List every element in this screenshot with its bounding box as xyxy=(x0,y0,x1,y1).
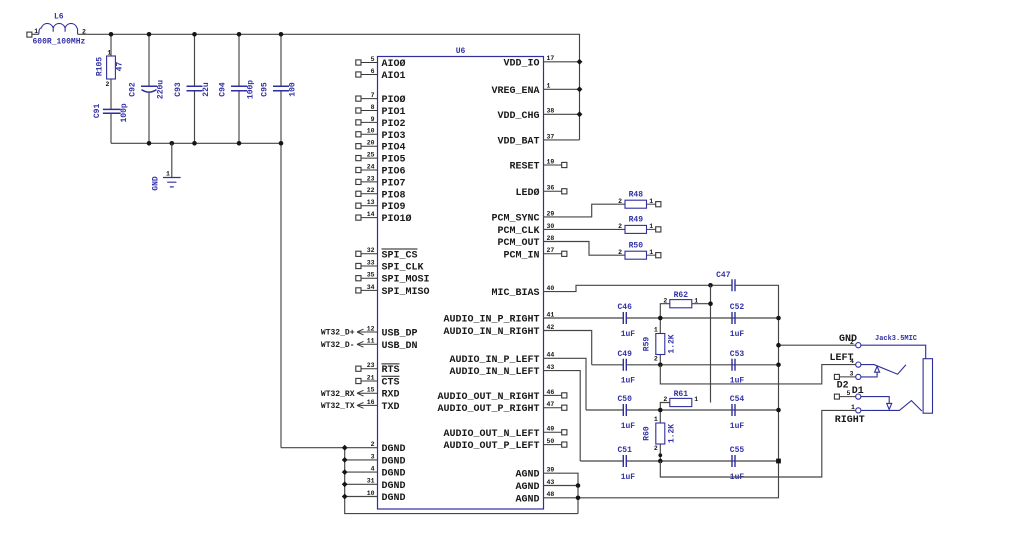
wire C93 to bottom rail xyxy=(194,92,196,144)
svg-text:1: 1 xyxy=(694,396,698,403)
svg-text:47: 47 xyxy=(115,62,124,72)
junction DGND bus pin 3 xyxy=(342,457,348,463)
resistor R105 xyxy=(96,50,125,89)
capacitor C51 xyxy=(617,446,635,482)
wire VREG_ENA to VDD rail xyxy=(544,88,580,90)
capacitor C91 xyxy=(93,103,129,122)
svg-text:31: 31 xyxy=(367,478,375,485)
svg-text:AGND: AGND xyxy=(515,482,539,493)
pin TXD (pin 16) with net WT32_TX xyxy=(321,399,400,413)
pin AUDIO_OUT_P_LEFT (pin 50) right xyxy=(443,438,566,452)
svg-text:23: 23 xyxy=(367,362,375,369)
svg-text:LEDØ: LEDØ xyxy=(515,187,539,199)
svg-text:PCM_SYNC: PCM_SYNC xyxy=(491,213,539,224)
svg-text:PIO1: PIO1 xyxy=(382,107,406,118)
wire C92 to bottom rail xyxy=(148,92,150,144)
wire port to L6 xyxy=(32,33,39,35)
svg-text:U6: U6 xyxy=(456,47,466,56)
junction row A right rail xyxy=(776,316,781,321)
wire DGND pin31 row xyxy=(345,483,378,485)
wire AUDIO_IN_P_LEFT jog xyxy=(544,358,587,410)
op-amp U6 body xyxy=(378,47,544,509)
resistor R59 xyxy=(642,327,676,363)
svg-text:GND: GND xyxy=(839,334,857,345)
pin AUDIO_OUT_P_RIGHT (pin 47) right xyxy=(437,401,566,415)
wire R59 leads xyxy=(659,318,661,365)
node D2 stub xyxy=(834,374,855,379)
pin RESET (pin 19) right xyxy=(509,158,566,172)
junction row C right rail xyxy=(776,408,781,413)
svg-text:R50: R50 xyxy=(629,241,644,250)
svg-text:41: 41 xyxy=(547,311,555,318)
capacitor C46 xyxy=(617,303,635,339)
pin USB_DN (pin 11) with net WT32_D- xyxy=(321,338,418,352)
svg-text:C52: C52 xyxy=(730,303,745,312)
pin DGND (pin 10) xyxy=(367,490,406,504)
svg-text:5: 5 xyxy=(371,56,375,63)
pin PIO9 (pin 13) left stub xyxy=(356,199,406,213)
svg-text:27: 27 xyxy=(547,247,555,254)
svg-text:RESET: RESET xyxy=(509,162,539,173)
wire DGND pin3 row xyxy=(345,459,378,461)
svg-text:AIOØ: AIOØ xyxy=(382,58,406,70)
svg-text:DGND: DGND xyxy=(382,469,406,480)
pin MIC_BIAS (pin 40) right xyxy=(491,285,554,299)
svg-text:44: 44 xyxy=(547,352,555,359)
svg-text:32: 32 xyxy=(367,247,375,254)
junction AGND 48 xyxy=(576,496,581,501)
svg-text:R62: R62 xyxy=(674,291,689,300)
junction bottom rail GND stem xyxy=(170,141,175,146)
svg-text:C94: C94 xyxy=(219,82,228,97)
svg-text:37: 37 xyxy=(547,133,555,140)
pin RTS (pin 23) left stub xyxy=(356,362,400,376)
capacitor C52 xyxy=(730,303,745,339)
svg-text:TXD: TXD xyxy=(382,402,400,413)
wire AUDIO_IN_P_RIGHT row xyxy=(544,317,779,319)
svg-text:10: 10 xyxy=(367,128,375,135)
svg-text:1: 1 xyxy=(654,416,658,423)
port J-IN pin1 xyxy=(27,28,38,37)
svg-text:USB_DN: USB_DN xyxy=(382,341,418,352)
svg-text:36: 36 xyxy=(547,185,555,192)
pin SPI_MOSI (pin 35) left stub xyxy=(356,272,430,286)
svg-text:WT32_RX: WT32_RX xyxy=(321,390,355,399)
junction row D right rail xyxy=(776,459,781,464)
pin PIO7 (pin 23) left stub xyxy=(356,175,406,189)
junction DGND bus pin 4 xyxy=(342,469,348,475)
wire VDD_IO to VDD rail xyxy=(544,61,580,63)
junction rail jack GND row xyxy=(776,343,781,348)
svg-text:PIO8: PIO8 xyxy=(382,190,406,201)
wire rail to C92 xyxy=(148,34,150,86)
svg-text:1uF: 1uF xyxy=(621,377,636,386)
svg-text:RTS: RTS xyxy=(382,365,400,376)
svg-text:DGND: DGND xyxy=(382,481,406,492)
pin PIO2 (pin 9) left stub xyxy=(356,116,406,130)
svg-text:43: 43 xyxy=(547,479,555,486)
wire PCM_OUT to R50 xyxy=(544,242,626,256)
svg-text:33: 33 xyxy=(367,259,375,266)
wire R62 right lead and vertical to R61 xyxy=(692,285,711,402)
svg-text:50: 50 xyxy=(547,438,555,445)
pin PIO3 (pin 10) left stub xyxy=(356,128,406,142)
resistor R50 xyxy=(618,241,661,259)
wire C95 column down to DGND row xyxy=(280,92,282,448)
svg-text:1: 1 xyxy=(166,170,170,177)
junction top rail C93 xyxy=(192,32,197,37)
svg-text:3: 3 xyxy=(850,371,854,378)
pin AUDIO_IN_N_RIGHT (pin 42) right xyxy=(443,324,554,338)
junction R60 pin2 xyxy=(658,453,662,457)
svg-text:1: 1 xyxy=(649,249,653,256)
svg-text:R61: R61 xyxy=(674,390,689,399)
svg-text:2: 2 xyxy=(618,249,622,256)
pin VDD_BAT (pin 37) right xyxy=(497,133,554,147)
capacitor C94 xyxy=(219,80,256,99)
wire VDD_CHG to VDD rail xyxy=(544,113,580,115)
wire R105 to C91 xyxy=(110,79,112,109)
pin CTS (pin 21) left stub xyxy=(356,374,400,388)
svg-text:11: 11 xyxy=(367,338,375,345)
svg-text:14: 14 xyxy=(367,211,375,218)
wire top VDD rail xyxy=(78,34,580,140)
wire AUDIO_IN_N_RIGHT jog xyxy=(544,331,592,365)
svg-text:5: 5 xyxy=(847,390,851,397)
inductor L6 xyxy=(33,13,87,47)
svg-text:PIO4: PIO4 xyxy=(382,143,406,154)
wire MIC_BIAS after C47 and right rail xyxy=(578,285,779,498)
wire C94 to bottom rail xyxy=(238,92,240,144)
svg-text:43: 43 xyxy=(547,364,555,371)
pin PCM_SYNC (pin 29) right xyxy=(491,210,554,224)
pin LED0 (pin 36) right xyxy=(515,185,566,199)
junction bottom rail C92 xyxy=(147,141,152,146)
svg-text:1uF: 1uF xyxy=(730,330,745,339)
svg-text:1: 1 xyxy=(694,297,698,304)
svg-text:RXD: RXD xyxy=(382,390,400,401)
svg-text:2: 2 xyxy=(663,297,667,304)
wire DGND bus xyxy=(345,448,578,514)
junction bottom rail C94 xyxy=(237,141,242,146)
svg-text:21: 21 xyxy=(367,374,375,381)
svg-text:2: 2 xyxy=(618,198,622,205)
junction bottom rail C93 xyxy=(192,141,197,146)
svg-text:9: 9 xyxy=(371,116,375,123)
capacitor C49 xyxy=(617,350,635,386)
svg-text:USB_DP: USB_DP xyxy=(382,329,418,340)
wire AUDIO_IN_N_RIGHT row xyxy=(592,364,779,366)
junction top rail R105 xyxy=(109,32,114,37)
wire bottom rail (decoupling) xyxy=(111,142,281,144)
wire AUDIO_IN_P_LEFT row xyxy=(586,409,779,411)
svg-text:47: 47 xyxy=(547,401,555,408)
svg-text:PIO1Ø: PIO1Ø xyxy=(382,213,412,225)
junction R60 node row D xyxy=(658,459,663,464)
svg-text:AGND: AGND xyxy=(515,470,539,481)
svg-text:3: 3 xyxy=(371,453,375,460)
pin SPI_CLK (pin 33) left stub xyxy=(356,259,424,273)
svg-text:C53: C53 xyxy=(730,350,745,359)
svg-text:PCM_OUT: PCM_OUT xyxy=(497,238,539,249)
svg-text:35: 35 xyxy=(367,272,375,279)
svg-text:R48: R48 xyxy=(629,190,644,199)
svg-text:7: 7 xyxy=(371,92,375,99)
svg-text:SPI_MOSI: SPI_MOSI xyxy=(382,275,430,286)
resistor R48 xyxy=(618,190,661,208)
svg-text:1: 1 xyxy=(649,223,653,230)
svg-text:34: 34 xyxy=(367,284,375,291)
svg-text:46: 46 xyxy=(547,389,555,396)
junction DGND bus pin 31 xyxy=(342,481,348,487)
wire AGND pin43 xyxy=(544,485,579,487)
wire DGND pin2 row xyxy=(281,447,378,449)
wire R61 left lead xyxy=(660,403,670,411)
svg-text:22u: 22u xyxy=(202,82,211,97)
svg-text:R59: R59 xyxy=(642,337,651,352)
svg-text:SPI_CLK: SPI_CLK xyxy=(382,263,424,274)
svg-text:17: 17 xyxy=(547,55,555,62)
wire AGND pin48 xyxy=(544,497,579,499)
svg-text:PIO2: PIO2 xyxy=(382,119,406,130)
svg-text:2: 2 xyxy=(106,81,110,88)
svg-text:PIO6: PIO6 xyxy=(382,167,406,178)
svg-text:C47: C47 xyxy=(716,271,731,280)
svg-text:1uF: 1uF xyxy=(621,330,636,339)
svg-text:100p: 100p xyxy=(247,80,256,99)
pin USB_DP (pin 12) with net WT32_D+ xyxy=(321,325,418,339)
svg-text:PIO3: PIO3 xyxy=(382,131,406,142)
wire MIC_BIAS xyxy=(544,285,733,291)
svg-text:AUDIO_OUT_N_LEFT: AUDIO_OUT_N_LEFT xyxy=(443,429,539,440)
svg-text:10: 10 xyxy=(367,490,375,497)
svg-text:AGND: AGND xyxy=(515,494,539,505)
svg-text:PIO7: PIO7 xyxy=(382,178,406,189)
pin VDD_CHG (pin 38) right xyxy=(497,108,554,122)
svg-text:1.2K: 1.2K xyxy=(668,424,677,443)
pin PIO5 (pin 25) left stub xyxy=(356,152,406,166)
svg-text:CTS: CTS xyxy=(382,378,400,389)
pin AIO0 (pin 5) left stub xyxy=(356,56,406,70)
svg-text:WT32_TX: WT32_TX xyxy=(321,402,355,411)
wire R60 leads xyxy=(659,410,661,461)
svg-text:220u: 220u xyxy=(157,80,166,99)
pin DGND (pin 4) xyxy=(371,466,406,480)
svg-text:19: 19 xyxy=(547,158,555,165)
svg-text:C91: C91 xyxy=(93,104,102,119)
svg-text:23: 23 xyxy=(367,175,375,182)
svg-text:1: 1 xyxy=(851,404,855,411)
svg-text:2: 2 xyxy=(663,396,667,403)
wire rail to C93 xyxy=(194,34,196,86)
svg-text:C54: C54 xyxy=(730,395,745,404)
pin PCM_IN (pin 27) right xyxy=(503,247,566,261)
svg-text:22: 22 xyxy=(367,187,375,194)
pin AUDIO_IN_P_RIGHT (pin 41) right xyxy=(443,311,554,325)
pin PIO10 (pin 14) left stub xyxy=(356,211,412,225)
svg-text:42: 42 xyxy=(547,324,555,331)
ground GND xyxy=(152,170,181,190)
wire AUDIO_IN_N_LEFT row xyxy=(580,460,778,462)
junction bottom rail C95 column xyxy=(279,141,284,146)
svg-text:R49: R49 xyxy=(629,216,644,225)
node D1 stub xyxy=(834,394,855,399)
resistor R62 xyxy=(663,291,698,308)
wire DGND pin10 row xyxy=(345,496,378,498)
svg-text:1.2K: 1.2K xyxy=(668,334,677,353)
svg-text:C49: C49 xyxy=(617,350,632,359)
svg-text:2: 2 xyxy=(654,355,658,362)
svg-text:1uF: 1uF xyxy=(621,473,636,482)
svg-text:AUDIO_IN_P_LEFT: AUDIO_IN_P_LEFT xyxy=(449,355,539,366)
svg-text:AUDIO_OUT_P_RIGHT: AUDIO_OUT_P_RIGHT xyxy=(437,404,539,415)
pin VDD_IO (pin 17) right xyxy=(503,55,554,69)
svg-text:13: 13 xyxy=(367,199,375,206)
junction DGND bus pin 2 xyxy=(342,445,348,451)
svg-text:C46: C46 xyxy=(617,303,632,312)
capacitor C50 xyxy=(617,395,635,431)
wire DGND pin4 row xyxy=(345,471,378,473)
svg-text:38: 38 xyxy=(547,108,555,115)
svg-text:600R_100MHz: 600R_100MHz xyxy=(33,37,86,46)
svg-text:2: 2 xyxy=(371,441,375,448)
capacitor C92 xyxy=(129,80,166,99)
svg-text:4: 4 xyxy=(850,358,854,365)
junction VDD rail VDD_CHG xyxy=(577,111,583,117)
svg-text:100: 100 xyxy=(289,82,298,97)
wire net RIGHT detour xyxy=(660,410,855,477)
wire jack GND xyxy=(779,344,856,346)
svg-text:GND: GND xyxy=(152,176,161,191)
capacitor C93 xyxy=(174,82,211,97)
resistor R61 xyxy=(663,390,698,407)
svg-text:PCM_CLK: PCM_CLK xyxy=(497,226,539,237)
capacitor C55 xyxy=(730,446,745,482)
pin AUDIO_OUT_N_LEFT (pin 49) right xyxy=(443,426,566,440)
svg-text:VDD_BAT: VDD_BAT xyxy=(497,136,539,147)
svg-text:R60: R60 xyxy=(642,426,651,441)
svg-text:16: 16 xyxy=(367,399,375,406)
pin PIO8 (pin 22) left stub xyxy=(356,187,406,201)
pin PCM_OUT (pin 28) right xyxy=(497,235,554,249)
pin PIO0 (pin 7) left stub xyxy=(356,92,406,106)
svg-text:VDD_CHG: VDD_CHG xyxy=(497,111,539,122)
wire rail to R105 xyxy=(110,34,112,56)
pin DGND (pin 3) xyxy=(371,453,406,467)
svg-text:39: 39 xyxy=(547,467,555,474)
pin VREG_ENA (pin 1) right xyxy=(491,83,550,97)
capacitor C95 xyxy=(261,82,298,97)
svg-text:R105: R105 xyxy=(96,57,105,76)
junction VDD rail VREG_ENA xyxy=(577,86,583,92)
svg-text:Jack3.5MIC: Jack3.5MIC xyxy=(875,335,917,343)
svg-text:2: 2 xyxy=(654,445,658,452)
capacitor C53 xyxy=(730,350,745,386)
svg-text:28: 28 xyxy=(547,235,555,242)
svg-text:AIO1: AIO1 xyxy=(382,71,406,82)
svg-text:AUDIO_IN_N_LEFT: AUDIO_IN_N_LEFT xyxy=(449,367,539,378)
svg-text:PCM_IN: PCM_IN xyxy=(503,250,539,261)
svg-text:PIOØ: PIOØ xyxy=(382,94,406,106)
pin PIO4 (pin 20) left stub xyxy=(356,140,406,154)
svg-text:1: 1 xyxy=(107,50,111,57)
wire C91 to bottom rail xyxy=(110,113,112,143)
pin AUDIO_OUT_N_RIGHT (pin 46) right xyxy=(437,389,566,403)
pin SPI_MISO (pin 34) left stub xyxy=(356,284,430,298)
junction R62 pin1 vertical xyxy=(708,301,713,306)
junction DGND bus pin 10 xyxy=(342,494,348,500)
junction top rail C95 xyxy=(279,32,284,37)
svg-text:WT32_D-: WT32_D- xyxy=(321,341,355,350)
junction AGND 43 xyxy=(576,483,581,488)
wire rail to C95 xyxy=(280,34,282,86)
svg-text:DGND: DGND xyxy=(382,456,406,467)
svg-text:C51: C51 xyxy=(617,446,632,455)
svg-text:1: 1 xyxy=(547,83,551,90)
svg-text:24: 24 xyxy=(367,163,375,170)
svg-text:SPI_MISO: SPI_MISO xyxy=(382,287,430,298)
svg-text:C92: C92 xyxy=(129,82,138,97)
junction R59 pin2 node row B xyxy=(658,363,663,368)
svg-text:AUDIO_IN_P_RIGHT: AUDIO_IN_P_RIGHT xyxy=(443,315,539,326)
wire rail to C94 xyxy=(238,34,240,86)
svg-text:6: 6 xyxy=(371,68,375,75)
pin AGND (pin 48) right xyxy=(515,491,554,505)
junction MIC_BIAS / R62 vertical xyxy=(708,283,713,288)
svg-text:1uF: 1uF xyxy=(621,422,636,431)
wire PCM_CLK to R49 xyxy=(544,228,626,230)
svg-text:PIO9: PIO9 xyxy=(382,202,406,213)
pin RXD (pin 15) with net WT32_RX xyxy=(321,387,400,401)
svg-text:VDD_IO: VDD_IO xyxy=(503,58,539,69)
svg-text:20: 20 xyxy=(367,140,375,147)
junction top rail C92 xyxy=(147,32,152,37)
pin SPI_CS (pin 32) left stub xyxy=(356,247,418,261)
resistor R60 xyxy=(642,416,676,452)
svg-text:40: 40 xyxy=(547,285,555,292)
svg-text:PIO5: PIO5 xyxy=(382,155,406,166)
svg-text:AUDIO_OUT_P_LEFT: AUDIO_OUT_P_LEFT xyxy=(443,441,539,452)
pin DGND (pin 31) xyxy=(367,478,406,492)
wire PCM_SYNC to R48 xyxy=(544,204,626,217)
svg-text:MIC_BIAS: MIC_BIAS xyxy=(491,288,539,299)
svg-text:2: 2 xyxy=(850,339,854,346)
svg-text:C95: C95 xyxy=(261,82,270,97)
svg-text:100p: 100p xyxy=(120,103,129,122)
junction R62/R59 node row A xyxy=(658,316,663,321)
svg-text:AUDIO_IN_N_RIGHT: AUDIO_IN_N_RIGHT xyxy=(443,327,539,338)
svg-text:C55: C55 xyxy=(730,446,745,455)
svg-text:15: 15 xyxy=(367,387,375,394)
capacitor C54 xyxy=(730,395,745,431)
pin DGND (pin 2) xyxy=(371,441,406,455)
pin PCM_CLK (pin 30) right xyxy=(497,223,554,237)
svg-text:4: 4 xyxy=(371,466,375,473)
wire GND stem xyxy=(171,143,173,177)
pin PIO1 (pin 8) left stub xyxy=(356,104,406,118)
svg-text:49: 49 xyxy=(547,426,555,433)
pin AUDIO_IN_N_LEFT (pin 43) right xyxy=(449,364,554,378)
junction R61/R60 node row C xyxy=(658,408,663,413)
wire AUDIO_IN_N_LEFT jog xyxy=(544,371,581,461)
wire R62 left lead xyxy=(660,304,670,318)
junction row B right rail xyxy=(776,363,781,368)
svg-text:8: 8 xyxy=(371,104,375,111)
svg-text:2: 2 xyxy=(618,223,622,230)
svg-text:AUDIO_OUT_N_RIGHT: AUDIO_OUT_N_RIGHT xyxy=(437,392,539,403)
svg-text:RIGHT: RIGHT xyxy=(835,415,865,426)
svg-text:WT32_D+: WT32_D+ xyxy=(321,329,355,338)
